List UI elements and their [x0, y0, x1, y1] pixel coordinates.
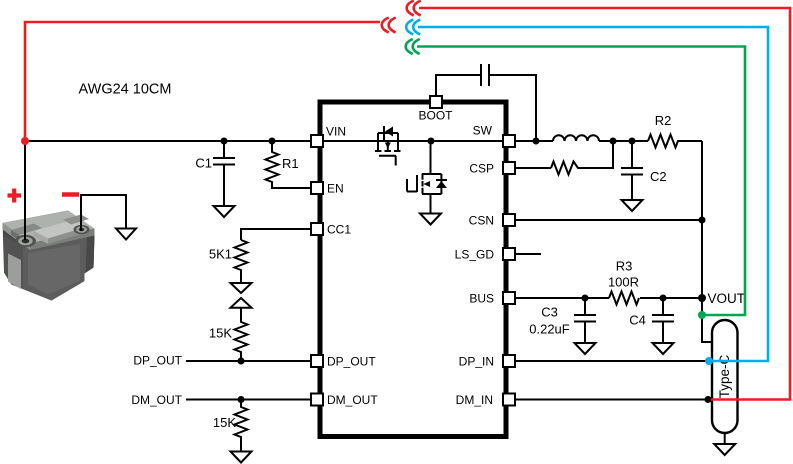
svg-text:5K1: 5K1: [209, 247, 232, 262]
inductor L1: [553, 135, 599, 141]
node DP/15K: [238, 358, 245, 365]
svg-text:VOUT: VOUT: [708, 291, 746, 306]
pin EN: [311, 182, 323, 194]
ground (C1): [214, 206, 235, 217]
wire SW out: [515, 140, 553, 142]
capacitor boot: [481, 64, 489, 86]
+ mark: [8, 189, 22, 203]
connector Type-C: [712, 320, 738, 433]
wire cap to SW node: [489, 75, 536, 141]
node C3: [582, 295, 589, 302]
pin DM_IN: [503, 394, 515, 406]
pin CSN: [503, 214, 515, 226]
pin DP_IN: [503, 355, 515, 367]
wire R2 down to CSN/VOUT: [702, 141, 712, 342]
stub LS_GD: [515, 253, 541, 255]
resistor sense: [551, 141, 613, 175]
wire-break chevron cyan: [406, 20, 420, 35]
ground (battery minus): [116, 229, 136, 240]
pin DM_OUT: [311, 394, 323, 406]
wire-break chevron red left: [382, 18, 396, 33]
node VOUT: [698, 294, 706, 302]
pin CC1: [311, 223, 323, 235]
capacitor C4: [652, 298, 674, 343]
wire BOOT to cap: [436, 75, 481, 96]
capacitor C1: [213, 141, 235, 206]
svg-text:DM_IN: DM_IN: [456, 393, 493, 407]
svg-text:C4: C4: [629, 313, 646, 328]
wire red AWG24 from battery +: [25, 22, 380, 141]
pin BOOT: [430, 96, 442, 108]
pin SW: [503, 135, 515, 147]
wire-break chevron green: [406, 39, 420, 54]
pin DP_OUT: [311, 355, 323, 367]
wire CC1 to 5K1: [241, 229, 311, 240]
svg-text:15K: 15K: [209, 325, 232, 340]
svg-text:AWG24 10CM: AWG24 10CM: [79, 82, 172, 98]
IC U1 body: [320, 102, 506, 437]
resistor 5K1: [235, 240, 248, 283]
ground (C4): [653, 343, 674, 354]
svg-text:R2: R2: [655, 113, 672, 128]
svg-text:15K: 15K: [213, 415, 236, 430]
MOSFET Q1 high-side: [375, 126, 401, 166]
node L out: [610, 138, 617, 145]
svg-text:DP_OUT: DP_OUT: [133, 354, 182, 368]
pin LS_GD: [503, 248, 515, 260]
svg-text:C1: C1: [195, 156, 212, 171]
svg-text:DP_OUT: DP_OUT: [327, 354, 376, 368]
wire CSN row: [515, 219, 702, 221]
wire VIN to SW inside: [323, 140, 503, 142]
svg-text:DM_OUT: DM_OUT: [131, 393, 182, 407]
wire red to DM_IN (right): [419, 8, 790, 400]
node DP_IN cyan: [705, 357, 713, 365]
MOSFET Q2 low-side: [407, 141, 447, 214]
ground (Type-C): [714, 444, 735, 455]
pin BUS: [503, 292, 515, 304]
svg-text:CSN: CSN: [469, 213, 494, 227]
node boot/SW: [533, 138, 540, 145]
wire L1 to R2: [599, 140, 648, 142]
node R1: [269, 138, 276, 145]
wire DM_IN row: [515, 399, 708, 401]
ground (C2): [622, 200, 643, 211]
wire DP_OUT: [186, 360, 311, 362]
svg-text:DM_OUT: DM_OUT: [327, 393, 378, 407]
svg-text:CSP: CSP: [469, 161, 494, 175]
- mark: [62, 192, 79, 197]
red junction dot battery: [21, 137, 29, 145]
ground (15K lower): [231, 452, 252, 463]
ground (Q2 source): [420, 214, 441, 225]
svg-text:SW: SW: [473, 124, 493, 138]
svg-text:LS_GD: LS_GD: [455, 247, 495, 261]
ground (C3): [575, 343, 596, 354]
wire DM_OUT: [186, 399, 311, 401]
svg-text:CC1: CC1: [327, 223, 351, 237]
svg-text:BUS: BUS: [469, 291, 494, 305]
svg-text:BOOT: BOOT: [419, 109, 454, 123]
svg-text:VIN: VIN: [326, 125, 346, 139]
svg-text:C3: C3: [541, 305, 558, 320]
resistor 15K lower: [235, 400, 248, 452]
resistor R2: [648, 135, 702, 148]
resistor R1: [266, 141, 312, 188]
node CSN/R2: [699, 217, 706, 224]
resistor R3: [609, 292, 639, 305]
pin CSP: [503, 162, 515, 174]
node C4: [660, 295, 667, 302]
wire green to VOUT: [417, 47, 745, 316]
resistor 15K upper: [235, 308, 248, 361]
node green VBUS: [698, 311, 706, 319]
wire battery - to ground: [81, 195, 126, 231]
ground flipped (15K top): [231, 298, 252, 308]
capacitor C2: [621, 141, 643, 200]
capacitor C3: [574, 298, 596, 343]
wire DP_IN row: [515, 360, 709, 362]
svg-text:EN: EN: [327, 182, 344, 196]
pin VIN: [311, 135, 323, 147]
svg-text:R1: R1: [282, 156, 299, 171]
svg-text:R3: R3: [616, 259, 633, 274]
ground (5K1): [231, 283, 252, 293]
node DM/15K: [238, 396, 245, 403]
svg-text:DP_IN: DP_IN: [459, 354, 494, 368]
wire VIN row: [25, 140, 311, 142]
wire cyan to DP_IN: [418, 27, 768, 361]
wire-break chevron red right: [407, 1, 421, 16]
svg-text:C2: C2: [650, 169, 667, 184]
svg-text:0.22uF: 0.22uF: [529, 322, 570, 337]
wire battery + up: [24, 141, 26, 240]
node C1: [221, 138, 228, 145]
wire CSP sense: [515, 167, 551, 169]
svg-text:100R: 100R: [608, 275, 639, 290]
node DM_IN: [705, 396, 712, 403]
node SW internal: [428, 138, 435, 145]
node C2 tap: [629, 138, 636, 145]
wire Type-C to ground: [724, 433, 726, 444]
wire BUS row: [515, 297, 702, 299]
battery BT1: [3, 211, 95, 301]
